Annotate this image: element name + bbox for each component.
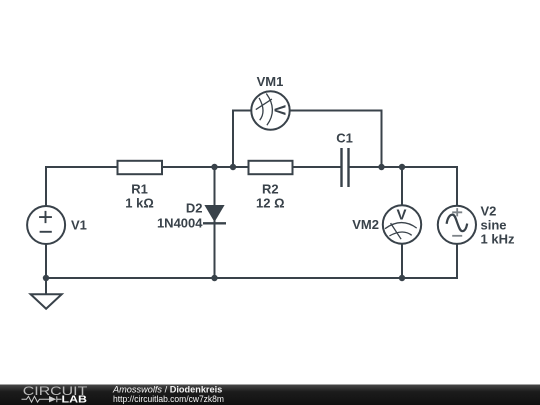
svg-text:V1: V1: [71, 218, 87, 233]
footer bar: [0, 385, 540, 405]
ground stub: [45, 278, 47, 294]
voltage source V2 (sine): [438, 206, 476, 244]
resistor R2: [249, 161, 293, 174]
svg-text:R1: R1: [131, 181, 148, 196]
svg-text:V2: V2: [481, 204, 497, 219]
node at diode bottom: [211, 275, 217, 281]
node at VM2 bottom: [399, 275, 405, 281]
wire VM1 right to down junction: [290, 111, 382, 168]
svg-text:sine: sine: [481, 218, 507, 233]
node at diode top: [211, 164, 217, 170]
wire VM1 branch up-left: [233, 111, 251, 168]
wire VM2 branch bottom: [401, 244, 403, 279]
node at VM2 top: [399, 164, 405, 170]
logo diode glyph: [49, 396, 56, 402]
voltmeter VM2: [383, 205, 421, 243]
wire bottom rail: [46, 277, 402, 279]
voltage source V1: [27, 206, 65, 244]
node at VM1 left branch: [230, 164, 236, 170]
ground: [31, 294, 62, 309]
wire diode branch vertical: [214, 167, 216, 278]
svg-text:V: V: [396, 207, 406, 224]
node junction dots: [43, 164, 405, 281]
resistor R1: [118, 161, 163, 174]
svg-text:1N4004: 1N4004: [157, 216, 203, 231]
wire R1 right to R2 left: [162, 166, 249, 168]
wire V2 bottom to rail: [402, 244, 457, 278]
svg-text:12 Ω: 12 Ω: [256, 195, 285, 210]
wire C1 right plate to V2 branch corner, down to V2 top: [349, 167, 457, 206]
svg-text:VM2: VM2: [352, 217, 379, 232]
wire V1 bottom to rail: [45, 244, 47, 278]
svg-text:http://circuitlab.com/cw7zk8m: http://circuitlab.com/cw7zk8m: [113, 394, 224, 404]
node at ground: [43, 275, 49, 281]
svg-text:R2: R2: [262, 181, 279, 196]
wire VM2 branch top: [401, 167, 403, 206]
svg-text:VM1: VM1: [257, 74, 284, 89]
logo squiggle resistor+diode: [22, 396, 62, 402]
wire R2 right to C1 left plate: [292, 166, 341, 168]
diode D2: [204, 205, 224, 222]
svg-text:1 kΩ: 1 kΩ: [125, 195, 154, 210]
voltmeter VM1: [251, 91, 289, 129]
svg-text:LAB: LAB: [62, 394, 88, 405]
svg-text:C1: C1: [336, 131, 353, 146]
wire top rail left: V1 top to R1: [46, 167, 118, 206]
capacitor C1: [342, 148, 349, 187]
svg-text:D2: D2: [186, 201, 203, 216]
svg-text:1 kHz: 1 kHz: [481, 232, 515, 247]
node at VM1 right branch: [378, 164, 384, 170]
